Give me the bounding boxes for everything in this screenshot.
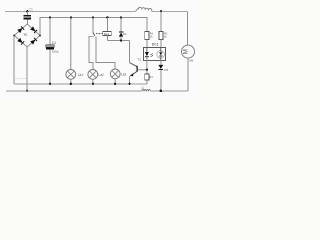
svg-text:C1: C1 bbox=[29, 8, 33, 12]
svg-text:Re1: Re1 bbox=[104, 32, 110, 36]
diode B1 bottom-right bbox=[30, 40, 35, 45]
svg-text:D1: D1 bbox=[123, 32, 127, 36]
wire bottom mains rail right bbox=[151, 90, 188, 92]
node La3 ground bbox=[114, 83, 116, 85]
wire motor feed bbox=[187, 11, 189, 45]
resistor R3 bbox=[145, 70, 149, 84]
node T1 base R3 junction bbox=[146, 69, 148, 71]
wire bridge minus to ground rail bbox=[13, 36, 15, 84]
node bridge right vertex bbox=[39, 35, 41, 37]
LED inside DC1 bbox=[145, 47, 153, 69]
svg-text:C4: C4 bbox=[52, 41, 56, 45]
diode D4 bbox=[158, 61, 163, 91]
svg-text:M1: M1 bbox=[189, 59, 193, 63]
node coil D1 junction bbox=[120, 39, 122, 41]
relay contact lever bbox=[93, 32, 95, 35]
svg-text:La2: La2 bbox=[98, 73, 104, 77]
node R2 tap dot bbox=[160, 10, 162, 12]
svg-text:R3: R3 bbox=[149, 75, 153, 79]
wire to T1 collector bbox=[129, 41, 131, 63]
relay contact common wire bbox=[92, 17, 94, 32]
relay contact throw bar bbox=[89, 35, 94, 37]
svg-text:100µ: 100µ bbox=[52, 49, 59, 53]
svg-text:La3: La3 bbox=[121, 72, 127, 76]
wire bridge AC bottom bbox=[26, 47, 28, 91]
wire NC throw to lamp La2 bbox=[89, 36, 93, 69]
wire bridge plus to DC rail bbox=[40, 17, 121, 35]
diode B1 bottom-left bbox=[17, 38, 22, 43]
resistor R1 bbox=[145, 32, 149, 48]
node La2 ground bbox=[92, 83, 94, 85]
wire faint cross segment bbox=[14, 77, 26, 79]
node Re1 coil tap bbox=[106, 16, 108, 18]
svg-text:T1: T1 bbox=[138, 58, 142, 62]
node La1 tap bbox=[70, 16, 72, 18]
capacitor C1 bbox=[24, 11, 32, 24]
wire bottom mains rail left bbox=[6, 90, 142, 92]
node bridge bottom rail junction bbox=[26, 90, 28, 92]
node C4 ground bbox=[49, 83, 51, 85]
node D1 tap bbox=[120, 16, 122, 18]
lamp La2 bbox=[88, 70, 98, 84]
wire DC rail to R1 bbox=[121, 17, 147, 31]
LED light arrows bbox=[150, 54, 153, 57]
diode B1 top-left bbox=[17, 28, 22, 33]
node bridge left vertex bbox=[13, 35, 15, 37]
node D4 rail junction bbox=[160, 90, 163, 93]
node relay common tap bbox=[92, 16, 94, 18]
diode D1 bbox=[119, 17, 124, 40]
relay coil Re1 bbox=[103, 17, 112, 40]
resistor R2 bbox=[159, 11, 163, 47]
relay contact linkage dashed bbox=[96, 32, 103, 34]
wire ground rail bbox=[14, 83, 147, 85]
node La1 ground bbox=[70, 83, 72, 85]
diode B1 top-right bbox=[30, 26, 35, 31]
svg-text:B1: B1 bbox=[24, 32, 28, 36]
lamp La1 bbox=[66, 17, 76, 83]
node C1 tap dot bbox=[26, 10, 28, 12]
bridge rectifier B1 bbox=[13, 24, 41, 47]
capacitor C4 bbox=[46, 17, 54, 83]
wire NO throw to lamp La3 bbox=[96, 36, 115, 69]
photo receiver inside DC1 bbox=[157, 47, 165, 60]
lamp La3 bbox=[110, 69, 120, 84]
wire motor return bbox=[187, 58, 189, 91]
svg-text:DC1: DC1 bbox=[152, 42, 159, 46]
node C4 tap bbox=[49, 16, 51, 18]
svg-text:M: M bbox=[182, 49, 189, 54]
inductor L1 bbox=[142, 90, 151, 91]
wire top mains rail left bbox=[5, 10, 136, 12]
node T1 emitter ground bbox=[128, 83, 130, 85]
motor M1 bbox=[182, 45, 195, 58]
optocoupler DC1 box bbox=[144, 47, 166, 60]
transistor T1 bbox=[130, 63, 147, 84]
svg-text:D4: D4 bbox=[164, 68, 168, 72]
wire top mains rail right bbox=[152, 10, 188, 12]
wire coil bottom node bbox=[107, 40, 129, 42]
fuse F1 squiggle bbox=[136, 7, 153, 11]
svg-text:La1: La1 bbox=[78, 73, 84, 77]
